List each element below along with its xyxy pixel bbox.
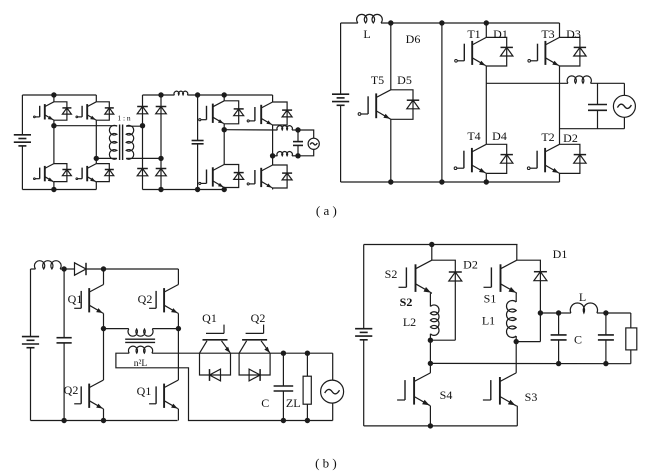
wire: AC branch (b-left) — [332, 353, 334, 420]
diode D3 — [560, 37, 587, 66]
wire: S2 collector drop — [431, 245, 433, 261]
node: S2 top — [429, 242, 434, 247]
rectifier diode DR3 — [137, 169, 148, 176]
diode across Q_a1 — [54, 102, 72, 120]
label D4 — [492, 129, 507, 143]
label Q1 — [68, 292, 83, 306]
svg-text:Q1: Q1 — [202, 311, 217, 325]
IGBT T3 — [528, 37, 560, 66]
svg-text:S1: S1 — [484, 292, 497, 306]
wire: (a)-right bottom rail — [341, 181, 560, 183]
IGBT Q_a2 (a-left leg2 top) — [76, 102, 96, 120]
IGBT Q2 (b-left top right) — [149, 285, 178, 314]
wire: (a)-right top rail — [341, 22, 560, 24]
wire: (b)-right top rail — [364, 244, 518, 246]
node: mid wire left — [428, 361, 433, 366]
node: leg1 mid — [51, 123, 56, 128]
svg-text:D6: D6 — [406, 32, 421, 46]
label Q2 (switch) — [251, 311, 266, 325]
node: bridge top right — [158, 92, 163, 97]
svg-text:Q2: Q2 — [251, 311, 266, 325]
wire: inv2 leg1 — [223, 95, 225, 190]
wire: S4 emitter — [429, 406, 431, 426]
svg-text:D2: D2 — [563, 131, 578, 145]
label L2 — [403, 315, 416, 329]
svg-text:Q1: Q1 — [68, 292, 83, 306]
label S2 (gate) — [385, 267, 398, 281]
IGBT Q_a1 (a-left leg1 top) — [34, 102, 54, 120]
node: bridge AC left — [140, 123, 145, 128]
node: leg2 mid — [94, 156, 99, 161]
node: output top — [295, 127, 300, 132]
wire: (b)-right bottom rail — [364, 425, 518, 427]
node: D6 top — [439, 20, 444, 25]
diode across Q_a3 — [54, 164, 72, 182]
node: bridge bottom right — [158, 187, 163, 192]
IGBT S2 — [399, 260, 432, 293]
wire: bridge left leg — [142, 95, 144, 190]
IGBT S3 — [483, 373, 516, 406]
battery V4 of (b)-right — [355, 245, 372, 426]
svg-text:S3: S3 — [525, 390, 538, 404]
label C (b-left) — [261, 396, 269, 410]
node: T4 bottom — [484, 179, 489, 184]
wire: D2 branch — [430, 260, 455, 340]
load R (b-right) — [626, 328, 637, 350]
caption (b) — [315, 456, 337, 471]
wire: primary bottom lead — [96, 157, 117, 159]
node: inv2 leg1 mid — [222, 127, 227, 132]
label n2L — [134, 359, 148, 369]
node: bridge AC right — [158, 156, 163, 161]
inductor Ldc (a-left) — [174, 91, 188, 95]
node: out bottom C — [281, 418, 286, 423]
node: inv2 leg2 mid — [270, 153, 275, 158]
label D3 — [566, 27, 581, 41]
bidirectional switch Q2 (IGBT) — [239, 325, 270, 381]
wire: (b)-left bottom rail — [31, 420, 178, 422]
label D6 — [406, 32, 421, 46]
wire: S1 collector drop — [516, 245, 518, 261]
svg-text:D5: D5 — [397, 73, 412, 87]
rectifier diode DR4 — [156, 169, 167, 176]
IGBT Q2 (b-left bottom) — [74, 380, 103, 409]
svg-text:D1: D1 — [553, 247, 568, 261]
IGBT T4 — [454, 144, 486, 173]
node: out node 2 — [603, 310, 608, 315]
label S1 — [484, 292, 497, 306]
caption (a) — [316, 203, 337, 218]
node: cap1 bottom — [556, 361, 561, 366]
node: S4 bottom — [428, 423, 433, 428]
IGBT S1 — [484, 260, 517, 293]
wire: n2L left lead — [116, 353, 333, 420]
wire: bridge mid to filter — [486, 82, 568, 84]
diode D2 (b-right) — [449, 272, 462, 281]
node: leg2 mid — [176, 326, 181, 331]
label D1 (b-right) — [553, 247, 568, 261]
IGBT Q1 (b-left bottom right) — [149, 380, 178, 409]
svg-text:1 : n: 1 : n — [117, 114, 131, 123]
node: out bottom ZL — [305, 418, 310, 423]
IGBT Q_a3 (a-left leg1 bottom) — [34, 164, 54, 182]
svg-text:( a ): ( a ) — [316, 203, 337, 218]
label D2 (b-right) — [463, 258, 478, 272]
svg-text:C: C — [261, 396, 269, 410]
wire: output top wire — [540, 313, 630, 328]
AC source (b-left) — [321, 380, 344, 403]
label T5 — [371, 73, 384, 87]
label Q1 (bottom-right) — [137, 384, 152, 398]
diode across Q_a2 — [96, 102, 114, 120]
capacitor C2 (b-right) — [598, 313, 614, 364]
wire: filter to source — [591, 83, 625, 95]
label Q2 — [138, 292, 153, 306]
inductor Lf2 (a-left) — [277, 152, 292, 156]
transformer winding 1 — [128, 329, 153, 336]
wire: secondary bottom lead — [126, 157, 161, 159]
node: leg1 bottom — [51, 187, 56, 192]
wire: bridge bottom rail — [143, 189, 225, 191]
IGBT S4 — [397, 373, 430, 406]
inductor Lin (b-left) — [34, 261, 61, 269]
transformer winding 2 (n2L) — [128, 346, 152, 353]
wire: (b)-left top rail — [31, 268, 179, 270]
label L — [363, 27, 370, 41]
AC source (a-left) — [308, 138, 319, 149]
battery V1 of (a)-left — [14, 95, 31, 190]
wire: bridge right leg — [160, 95, 162, 190]
label L (b-right) — [579, 290, 586, 304]
node: out node 1 — [556, 310, 561, 315]
label D5 — [397, 73, 412, 87]
label T1 — [467, 27, 480, 41]
AC source (a-right) — [613, 95, 635, 117]
wire: n2L right lead — [152, 352, 200, 354]
label S2 (bold) — [400, 295, 413, 309]
diode across Q_b2 — [273, 102, 293, 125]
load ZL — [303, 353, 311, 420]
svg-text:Q2: Q2 — [64, 383, 79, 397]
svg-text:D2: D2 — [463, 258, 478, 272]
IGBT T5 — [358, 90, 391, 120]
svg-text:( b ): ( b ) — [315, 456, 337, 471]
inductor L (a-right) — [357, 14, 383, 23]
node: leg1 mid — [101, 326, 106, 331]
IGBT Q1 (b-left top) — [74, 285, 103, 314]
label 1:n — [117, 114, 131, 123]
transformer TX1 secondary — [126, 125, 134, 159]
label D1 — [493, 27, 508, 41]
battery V2 of (a)-right — [332, 23, 349, 182]
svg-text:S2: S2 — [400, 295, 413, 309]
svg-text:L: L — [579, 290, 586, 304]
IGBT Q_b1 (a-left inv2 leg1 top) — [199, 101, 224, 124]
capacitor Cdc (a-left) — [192, 95, 204, 190]
wire: left leg mid — [429, 340, 431, 373]
diode across Q_b1 — [224, 101, 244, 124]
node: D6 bottom — [439, 179, 444, 184]
label D2 — [563, 131, 578, 145]
svg-text:L1: L1 — [482, 314, 495, 328]
wire: AC source loop — [298, 130, 314, 156]
svg-text:S2: S2 — [385, 267, 398, 281]
svg-text:T5: T5 — [371, 73, 384, 87]
diode Din (b-left) — [75, 263, 87, 275]
wire: inv2 output bottom — [273, 155, 278, 157]
svg-text:Q2: Q2 — [138, 292, 153, 306]
node: output bottom — [295, 153, 300, 158]
transformer core (b-left) — [125, 339, 155, 342]
wire: leg2 — [95, 95, 97, 190]
label T2 — [541, 130, 554, 144]
svg-text:ZL: ZL — [286, 396, 301, 410]
node: T5 top — [388, 20, 393, 25]
svg-text:S4: S4 — [440, 388, 453, 402]
transformer TX1 core — [120, 125, 123, 161]
capacitor C (b-left) — [274, 353, 294, 420]
inductor Lf1 (a-left) — [277, 126, 292, 130]
wire: inv2 output top — [224, 129, 277, 131]
wire: dc-link top — [187, 94, 272, 96]
diode D1 (b-right) — [534, 272, 547, 281]
wire: T3/T2 leg — [559, 23, 561, 182]
svg-text:D1: D1 — [493, 27, 508, 41]
wire: S2 emitter to L2 — [430, 293, 431, 306]
svg-text:T1: T1 — [467, 27, 480, 41]
inductor L1 — [507, 300, 517, 341]
wire: T5 branch — [390, 23, 392, 182]
diode across Q_b4 — [273, 165, 293, 188]
wire: switch row — [200, 352, 284, 354]
battery V3 of (b)-left — [22, 269, 39, 421]
capacitor Co (a-right) — [588, 83, 607, 128]
transformer TX1 primary — [109, 125, 117, 159]
node: dc-link top — [195, 92, 200, 97]
node: dc-link bottom — [195, 187, 200, 192]
diode D5 — [391, 90, 419, 120]
wire: S1 emitter to L1 — [515, 293, 518, 302]
label Q1 (switch) — [202, 311, 217, 325]
inductor L (b-right) — [559, 303, 606, 313]
svg-text:Q1: Q1 — [137, 384, 152, 398]
svg-text:D3: D3 — [566, 27, 581, 41]
svg-text:L: L — [363, 27, 370, 41]
wire: (b)-left leg1 — [103, 269, 105, 421]
capacitor C1 (b-right) — [551, 313, 567, 364]
label T4 — [467, 129, 480, 143]
wire: to output node top — [292, 129, 298, 131]
wire: S3 emitter — [516, 406, 517, 426]
IGBT Q_a4 (a-left leg2 bottom) — [76, 164, 96, 182]
label S4 — [440, 388, 453, 402]
capacitor Cin (b-left) — [57, 269, 72, 421]
label C (b-right) — [574, 333, 582, 347]
wire: winding1 leads — [104, 328, 179, 330]
svg-text:C: C — [574, 333, 582, 347]
node: leg Q1 top — [101, 266, 106, 271]
label ZL — [286, 396, 301, 410]
diode across Q_a4 — [96, 164, 114, 182]
wire: source bottom — [560, 117, 625, 128]
wire: output top — [283, 352, 332, 354]
node: cap2 bottom — [603, 361, 608, 366]
node: leg Q1 bottom — [101, 418, 106, 423]
node: L2 bottom — [428, 338, 433, 343]
wire: bridge top rail — [143, 94, 175, 96]
label S3 — [525, 390, 538, 404]
wire: (b)-left leg2 — [177, 269, 179, 421]
bidirectional switch Q1 (IGBT) — [200, 325, 231, 381]
node: leg1 top — [51, 92, 56, 97]
diode D1 — [486, 37, 513, 66]
node: out top C — [281, 351, 286, 356]
label Q2 (bottom-left) — [64, 383, 79, 397]
wire: secondary top lead — [126, 125, 142, 127]
wire: mid/output bottom wire — [430, 350, 630, 364]
wire: primary top lead — [54, 125, 117, 128]
label T3 — [541, 27, 554, 41]
wire: inv2 leg2 — [272, 95, 274, 190]
wire: leg1 — [53, 95, 55, 190]
node: cap bottom — [61, 418, 66, 423]
svg-text:T2: T2 — [541, 130, 554, 144]
node: out top ZL — [305, 351, 310, 356]
IGBT Q_b3 (a-left inv2 leg1 bottom) — [199, 165, 224, 188]
node: cap top — [61, 266, 66, 271]
wire: (a)-left bottom rail — [22, 189, 96, 191]
rectifier diode DR2 — [156, 107, 167, 114]
node: inv2 leg1 bottom — [222, 187, 227, 192]
node: T1 top — [484, 20, 489, 25]
diode D2 — [560, 144, 587, 173]
diode D4 — [486, 144, 513, 173]
wire: to output node bottom — [292, 155, 298, 157]
inductor Lo (a-right) — [567, 76, 591, 83]
node: T5 bottom — [388, 179, 393, 184]
wire: D1 branch — [516, 260, 540, 341]
svg-text:T4: T4 — [467, 129, 480, 143]
wire: (a)-left top rail — [22, 94, 96, 96]
node: inv2 leg1 top — [222, 92, 227, 97]
label L1 — [482, 314, 495, 328]
svg-text:T3: T3 — [541, 27, 554, 41]
svg-text:L2: L2 — [403, 315, 416, 329]
rectifier diode DR1 — [137, 107, 148, 114]
IGBT T1 — [455, 37, 487, 66]
node: L1 bottom — [514, 339, 519, 344]
wire: T1/T4 leg — [485, 23, 487, 182]
node: D1 tap — [538, 310, 543, 315]
inductor L2 — [430, 305, 439, 340]
IGBT Q_b4 (a-left inv2 leg2 bottom) — [247, 165, 272, 188]
IGBT Q_b2 (a-left inv2 leg2 top) — [247, 102, 272, 125]
capacitor Cf (a-left) — [293, 130, 303, 156]
wire: D6 branch — [441, 23, 443, 182]
diode across Q_b3 — [224, 165, 244, 188]
wire: right leg mid — [515, 342, 517, 373]
svg-text:D4: D4 — [492, 129, 507, 143]
IGBT T2 — [527, 144, 559, 173]
